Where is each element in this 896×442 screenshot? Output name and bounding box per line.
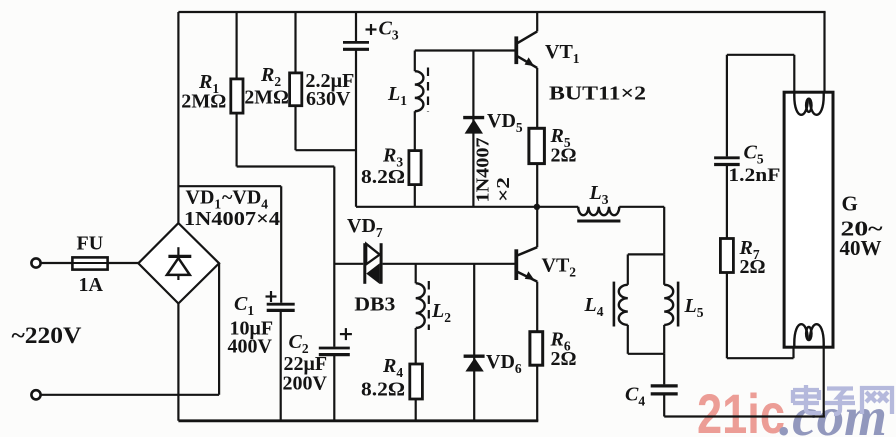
svg-text:×2: ×2 bbox=[493, 177, 513, 202]
svg-text:40W: 40W bbox=[840, 236, 882, 260]
svg-text:DB3: DB3 bbox=[354, 294, 395, 316]
svg-text:200V: 200V bbox=[283, 373, 328, 395]
svg-text:BUT11×2: BUT11×2 bbox=[549, 83, 646, 105]
svg-text:400V: 400V bbox=[228, 336, 273, 358]
svg-text:2MΩ: 2MΩ bbox=[181, 91, 226, 113]
svg-text:G: G bbox=[842, 192, 858, 216]
svg-text:1.2nF: 1.2nF bbox=[728, 165, 780, 186]
svg-text:630V: 630V bbox=[306, 88, 351, 110]
svg-text:21ic: 21ic bbox=[697, 382, 785, 437]
svg-text:2Ω: 2Ω bbox=[551, 145, 577, 167]
svg-text:8.2Ω: 8.2Ω bbox=[361, 166, 405, 188]
svg-text:2MΩ: 2MΩ bbox=[244, 87, 289, 109]
svg-text:2Ω: 2Ω bbox=[740, 256, 766, 278]
svg-text:8.2Ω: 8.2Ω bbox=[361, 379, 405, 401]
svg-text:1N4007×4: 1N4007×4 bbox=[184, 208, 280, 230]
svg-text:~220V: ~220V bbox=[12, 323, 82, 348]
svg-text:2Ω: 2Ω bbox=[551, 348, 577, 370]
svg-text:.com: .com bbox=[779, 386, 887, 437]
svg-text:FU: FU bbox=[77, 233, 104, 255]
svg-text:1A: 1A bbox=[79, 274, 104, 296]
svg-text:1N4007: 1N4007 bbox=[473, 138, 493, 203]
